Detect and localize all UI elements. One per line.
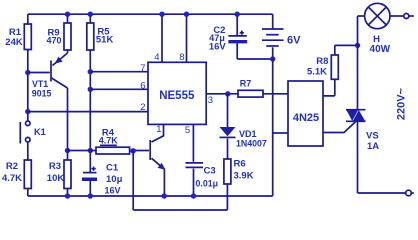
node C1 tee	[88, 148, 93, 153]
node base tee	[25, 70, 30, 75]
svg-text:NE555: NE555	[159, 90, 195, 102]
resistor R8	[307, 55, 338, 79]
wire K1 to R2	[27, 142, 29, 160]
node R3/collector tee	[65, 148, 70, 153]
svg-text:5: 5	[185, 125, 190, 136]
switch K1	[20, 121, 45, 144]
pin 7 label	[140, 63, 145, 74]
resistor R9	[46, 12, 71, 51]
wire R1 top lead	[27, 14, 29, 24]
svg-text:7: 7	[140, 63, 145, 74]
resistor R5	[87, 12, 114, 51]
svg-text:0.01μ: 0.01μ	[196, 178, 219, 188]
terminal top right	[404, 14, 414, 19]
node pin6 tee	[88, 87, 93, 92]
wire bottom ground rail	[28, 195, 273, 197]
wire pin7	[90, 71, 148, 73]
svg-text:1: 1	[156, 124, 161, 135]
pin 5 wire	[185, 124, 194, 161]
battery 6V	[262, 14, 301, 59]
wire R2 bottom	[27, 189, 29, 197]
wire opto right top to R8	[323, 79, 335, 96]
node pin2/K1 tee	[25, 109, 30, 114]
svg-text:220V~: 220V~	[396, 87, 408, 120]
triac VS	[346, 110, 379, 152]
pin 6 label	[140, 80, 145, 91]
pin 4 wire	[154, 12, 164, 63]
svg-text:R8: R8	[316, 56, 328, 67]
pin 8 wire	[179, 12, 189, 63]
diode VD1	[220, 94, 267, 159]
svg-text:16V: 16V	[209, 42, 227, 53]
svg-text:51K: 51K	[96, 35, 114, 46]
IC U1 NE555	[148, 62, 206, 124]
wire battery negative down to rail corner	[272, 59, 274, 196]
svg-text:40W: 40W	[370, 44, 391, 55]
optocoupler U2 4N25	[288, 81, 323, 146]
svg-text:R7: R7	[240, 79, 252, 89]
svg-text:8: 8	[179, 52, 184, 63]
wire VT1 base	[28, 72, 50, 74]
capacitor C1	[82, 163, 123, 199]
terminal bottom right	[406, 190, 414, 196]
svg-text:24K: 24K	[5, 37, 23, 48]
svg-text:1A: 1A	[367, 141, 379, 152]
resistor R6	[224, 159, 254, 185]
pin 2 label	[140, 102, 145, 113]
svg-text:R2: R2	[6, 161, 18, 172]
wire R8 top to main vertical	[335, 43, 360, 55]
svg-text:9015: 9015	[32, 88, 52, 98]
wire opto right bottom to triac gate	[323, 122, 356, 133]
svg-text:6V: 6V	[287, 35, 301, 47]
svg-text:2: 2	[140, 102, 145, 113]
svg-text:470: 470	[46, 36, 61, 46]
node base of VT2 tee	[131, 148, 136, 153]
transistor VT1	[32, 50, 68, 98]
svg-text:VD1: VD1	[239, 129, 257, 139]
label 220V mains	[396, 87, 408, 120]
svg-text:10K: 10K	[47, 173, 65, 184]
svg-text:10μ: 10μ	[106, 174, 123, 185]
wire node row	[68, 150, 150, 152]
wire VT1 collector down	[67, 88, 69, 151]
lamp H	[358, 3, 404, 55]
wire right main vertical	[357, 16, 359, 193]
node pin3/VD1 tee	[225, 91, 230, 96]
svg-text:4.7K: 4.7K	[99, 136, 119, 146]
svg-text:3.9K: 3.9K	[234, 171, 254, 182]
wire R1 bottom to base node	[27, 50, 29, 122]
svg-text:5.1K: 5.1K	[307, 67, 327, 78]
wire top rail	[28, 13, 273, 15]
resistor R1	[5, 24, 31, 50]
resistor R4	[96, 128, 130, 154]
wire loop down from base node	[133, 151, 227, 210]
svg-text:C3: C3	[204, 166, 216, 177]
svg-text:4: 4	[154, 52, 159, 63]
svg-text:16V: 16V	[105, 186, 121, 196]
svg-text:K1: K1	[34, 127, 46, 137]
node pin7 tee	[88, 69, 93, 74]
wire pin3 to opto	[206, 94, 288, 106]
wire pin2	[28, 111, 148, 113]
svg-text:4.7K: 4.7K	[2, 173, 22, 184]
svg-text:C1: C1	[106, 163, 119, 174]
capacitor C2	[209, 12, 273, 60]
wire opto cathode	[273, 132, 288, 134]
transistor VT2	[150, 140, 167, 199]
wire pin6	[90, 88, 148, 90]
svg-text:R3: R3	[49, 161, 61, 172]
svg-text:R6: R6	[234, 159, 246, 170]
svg-text:1N4007: 1N4007	[236, 138, 267, 148]
svg-text:VS: VS	[366, 131, 379, 142]
wire R5 lead down to C1	[89, 50, 91, 172]
resistor R2	[2, 160, 31, 189]
node battery/C2 tee	[270, 56, 275, 61]
capacitor C3	[186, 163, 219, 199]
pin 1 wire / VT2 collector	[152, 124, 164, 142]
wire bottom right to terminal	[358, 192, 406, 194]
svg-text:3: 3	[208, 95, 213, 106]
resistor R7	[238, 79, 263, 98]
svg-text:4N25: 4N25	[293, 112, 319, 124]
svg-text:6: 6	[140, 80, 145, 91]
resistor R3	[47, 151, 71, 199]
